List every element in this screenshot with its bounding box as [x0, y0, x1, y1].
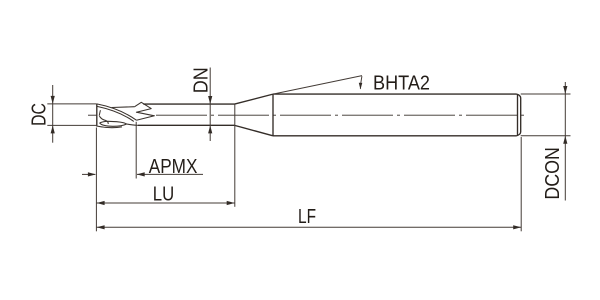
APMX arrow right (points left): [137, 172, 145, 176]
DN dimension line: [209, 68, 211, 142]
flute helix edge 1: [97, 104, 137, 120]
DCON bottom extension line: [521, 135, 571, 137]
body bottom edge: [138, 124, 235, 126]
DCON dimension line: [564, 82, 566, 201]
taper bottom line: [235, 125, 273, 135]
APMX dimension line left: [82, 173, 95, 175]
LF arrow left: [97, 225, 105, 229]
extension line neck end (LU right): [234, 104, 236, 207]
LU dimension line: [97, 202, 235, 204]
BHTA2 arrow (points down): [359, 83, 363, 90]
bottom tooth dip curve: [97, 126, 122, 128]
DC top extension line: [47, 103, 97, 105]
shank top edge: [273, 93, 516, 95]
DN arrow bottom: [208, 125, 212, 133]
svg-text:APMX: APMX: [149, 156, 198, 178]
centerline: [156, 114, 526, 116]
extension line flute end (APMX right): [135, 122, 137, 179]
centerline left stub: [88, 114, 97, 116]
DCON arrow top: [563, 86, 567, 94]
shank front line: [272, 94, 274, 136]
DC dimension line: [52, 85, 54, 143]
LF dimension line: [97, 226, 522, 228]
LF arrow right: [513, 225, 521, 229]
shank end chamfer inner line: [517, 95, 519, 136]
flute pocket upper curve: [100, 121, 127, 124]
APMX dimension line right: [137, 173, 203, 175]
DC arrow top: [51, 96, 55, 104]
DC bottom extension line: [47, 124, 97, 126]
flute valley line: [112, 106, 135, 109]
DCON top extension line: [521, 93, 571, 95]
shank bottom edge: [273, 135, 516, 137]
svg-text:LF: LF: [298, 206, 316, 228]
tip center web lines: [99, 110, 100, 116]
svg-text:DC: DC: [28, 103, 50, 126]
flute pocket tail to bottom edge: [127, 124, 138, 125]
taper top line: [235, 94, 273, 104]
svg-text:LU: LU: [153, 183, 174, 205]
BHTA2 leader line: [273, 76, 362, 95]
DC arrow bottom: [51, 125, 55, 133]
shank end chamfer face: [516, 94, 520, 136]
LU arrow left: [97, 201, 105, 205]
svg-text:DN: DN: [191, 67, 213, 93]
flute runout zigzag: [135, 102, 155, 120]
LU arrow right: [227, 201, 235, 205]
extension line shank end (LF right): [520, 137, 522, 231]
DN arrow top: [208, 96, 212, 104]
APMX arrow left (points right): [88, 172, 96, 176]
extension line tool tip (LU/LF left): [95, 128, 97, 232]
flute helix edge 2: [97, 106, 134, 121]
svg-text:DCON: DCON: [542, 147, 564, 200]
flute pocket lower curve: [100, 123, 127, 126]
tool tip face: [96, 104, 98, 127]
DCON arrow bottom: [563, 136, 567, 144]
svg-text:BHTA2: BHTA2: [373, 72, 430, 94]
BHTA2 angle arrow line: [360, 76, 362, 89]
body top edge: [143, 103, 234, 105]
